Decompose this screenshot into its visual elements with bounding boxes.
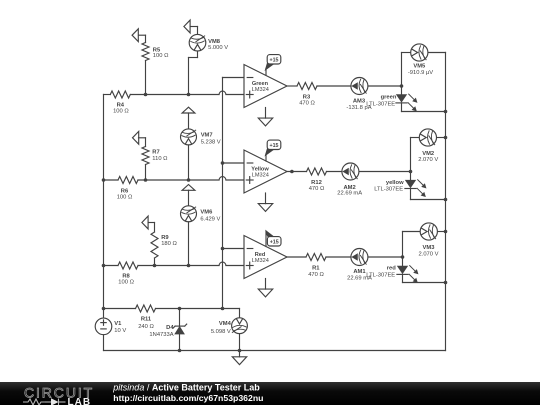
CircuitLab footer bar — [0, 382, 540, 405]
svg-text:470 Ω: 470 Ω — [308, 272, 324, 278]
wire yellow output — [287, 170, 411, 174]
svg-text:R1: R1 — [312, 265, 320, 271]
resistor R1 — [306, 254, 326, 278]
svg-text:2.070 V: 2.070 V — [418, 157, 438, 163]
svg-text:V1: V1 — [114, 321, 122, 327]
resistor R12 — [307, 168, 327, 192]
LED D1 green LTL-307EE — [366, 94, 416, 111]
resistor R9 — [142, 216, 178, 265]
svg-text:LAB: LAB — [68, 397, 92, 405]
svg-text:R11: R11 — [141, 316, 152, 322]
wire ladder reference bus — [223, 78, 245, 309]
svg-text:22.69 mA: 22.69 mA — [337, 190, 362, 196]
svg-text:100 Ω: 100 Ω — [118, 280, 134, 286]
voltmeter VM3 — [419, 223, 439, 258]
svg-text:R7: R7 — [152, 150, 159, 156]
node row B junctions — [102, 178, 191, 182]
logo doodle resistor — [23, 398, 66, 405]
wire green output — [287, 85, 402, 87]
svg-text:LTL-307EE: LTL-307EE — [366, 101, 395, 107]
wire red minus stub — [223, 248, 245, 250]
wire yellow LED loop — [411, 138, 446, 200]
ground (bottom) — [232, 351, 246, 365]
svg-text:110 Ω: 110 Ω — [152, 156, 168, 162]
power flag +15 (red) — [266, 231, 281, 247]
node green output junction — [400, 84, 404, 88]
resistor R7 — [133, 131, 169, 180]
svg-text:R4: R4 — [117, 102, 125, 108]
ground (green op-amp) — [258, 108, 272, 126]
svg-text:6.429 V: 6.429 V — [200, 216, 220, 222]
node right bus junctions — [444, 110, 448, 285]
voltmeter VM2 — [418, 129, 438, 163]
svg-text:VM4: VM4 — [219, 321, 232, 327]
svg-text:http://circuitlab.com/cy67n53p: http://circuitlab.com/cy67n53p362nu — [113, 393, 263, 403]
node row C junctions — [102, 264, 191, 268]
zener diode D4 1N4733A — [149, 309, 186, 351]
svg-text:180 Ω: 180 Ω — [161, 241, 177, 247]
node ladder junctions — [221, 161, 225, 250]
LED D2 yellow LTL-307EE — [374, 180, 425, 197]
wire row A bus — [104, 91, 245, 94]
voltmeter VM8 — [184, 20, 228, 94]
svg-text:100 Ω: 100 Ω — [113, 109, 129, 115]
ammeter AM2 — [337, 163, 362, 196]
wire row C bus — [104, 262, 245, 265]
svg-text:VM2: VM2 — [422, 151, 434, 157]
resistor R3 — [297, 83, 317, 107]
svg-text:Red: Red — [255, 252, 266, 258]
ammeter AM1 — [347, 249, 372, 282]
svg-text:green: green — [381, 95, 397, 101]
svg-text:LM324: LM324 — [252, 173, 269, 179]
node yellow output junction — [409, 170, 413, 174]
wire left bus — [103, 95, 105, 309]
node row D junctions — [102, 307, 225, 311]
svg-text:5.098 V: 5.098 V — [211, 329, 231, 335]
wire yellow minus stub — [223, 162, 245, 164]
svg-text:AM1: AM1 — [353, 269, 366, 275]
op-amp U2 Yellow — [244, 150, 287, 193]
LED D3 red LTL-307EE — [366, 265, 417, 282]
resistor R11 — [136, 305, 156, 330]
svg-text:100 Ω: 100 Ω — [153, 53, 169, 59]
wire red LED loop — [403, 232, 446, 283]
resistor R8 — [118, 262, 138, 286]
wire row B bus — [104, 177, 245, 180]
svg-text:-910.9 µV: -910.9 µV — [408, 70, 433, 76]
svg-text:470 Ω: 470 Ω — [299, 100, 315, 106]
svg-text:5.238 V: 5.238 V — [201, 140, 221, 146]
svg-text:2.070 V: 2.070 V — [419, 251, 439, 257]
svg-text:AM3: AM3 — [353, 98, 366, 104]
wire red output — [287, 256, 403, 258]
svg-text:+15: +15 — [270, 143, 279, 149]
svg-text:Green: Green — [252, 81, 269, 87]
resistor R4 — [110, 91, 130, 115]
svg-text:1N4733A: 1N4733A — [149, 332, 173, 338]
wire bottom bus — [104, 350, 446, 352]
svg-text:LTL-307EE: LTL-307EE — [366, 273, 395, 279]
voltmeter VM5 — [408, 44, 433, 76]
ground (red op-amp) — [258, 279, 272, 297]
wire right bus — [445, 53, 447, 351]
svg-text:LM324: LM324 — [252, 258, 269, 264]
svg-text:VM6: VM6 — [200, 210, 213, 216]
resistor R6 — [117, 177, 138, 201]
power flag +15 (yellow) — [266, 140, 281, 161]
svg-text:pitsinda / Active Battery Test: pitsinda / Active Battery Tester Lab — [112, 382, 260, 392]
svg-text:100 Ω: 100 Ω — [117, 195, 133, 201]
svg-text:D4: D4 — [166, 325, 174, 331]
svg-text:LTL-307EE: LTL-307EE — [374, 186, 403, 192]
svg-text:VM3: VM3 — [423, 245, 436, 251]
voltmeter VM4 — [211, 318, 248, 351]
svg-text:+15: +15 — [270, 240, 279, 246]
logo doodle diode — [45, 401, 51, 403]
voltmeter VM6 — [181, 185, 221, 266]
op-amp U1 Green — [244, 65, 287, 108]
svg-text:10 V: 10 V — [114, 328, 126, 334]
node bottom bus junctions — [178, 349, 242, 353]
svg-text:Yellow: Yellow — [251, 166, 269, 172]
ground (yellow op-amp) — [258, 193, 272, 211]
op-amp U3 Red — [244, 236, 287, 279]
svg-text:+15: +15 — [270, 58, 279, 64]
svg-text:240 Ω: 240 Ω — [138, 324, 154, 330]
voltage source V1 — [95, 309, 126, 351]
svg-text:yellow: yellow — [386, 180, 404, 186]
svg-text:470 Ω: 470 Ω — [309, 186, 325, 192]
svg-text:VM5: VM5 — [413, 63, 426, 69]
power flag +15 (green) — [266, 55, 281, 76]
svg-text:5.000 V: 5.000 V — [208, 45, 228, 51]
node red output junction — [401, 255, 405, 259]
ammeter AM3 — [346, 78, 371, 111]
wire green LED loop — [402, 53, 446, 112]
svg-text:red: red — [387, 265, 396, 271]
node row A junctions — [144, 93, 191, 97]
resistor R5 — [132, 29, 169, 95]
svg-text:LM324: LM324 — [252, 87, 269, 93]
wire row D bus — [104, 309, 240, 318]
svg-text:VM7: VM7 — [201, 133, 213, 139]
voltmeter VM7 — [181, 107, 221, 180]
